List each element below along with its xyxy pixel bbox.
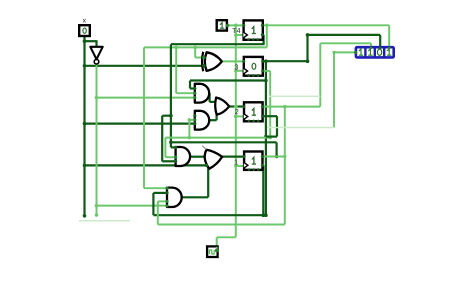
wire net AND-B output to OR3 (dark)	[191, 156, 206, 158]
T flip-flop 1	[234, 152, 262, 171]
wire net XOR output to T3 T-input (light)	[221, 60, 244, 62]
T flip-flop 2	[235, 102, 263, 122]
wire net T1.Q (light) to AND3 via bottom loop	[262, 156, 285, 158]
XOR gate U1	[205, 52, 222, 71]
wire net T3.Q-bar (light) to gates feed line y138.8	[263, 70, 271, 72]
wire net clock distribution (light)	[216, 237, 218, 251]
AND gate U7	[167, 188, 182, 207]
T flip-flop T4	[232, 20, 263, 40]
wire faint y96.3	[269, 95, 320, 97]
output display 4-bit 1101	[356, 47, 394, 57]
wire net OR1 output to T2 T-input (dark)	[229, 105, 244, 107]
svg-text:3: 3	[234, 62, 238, 71]
svg-text:2: 2	[235, 107, 239, 116]
wire net NOT output (light) x-bar	[96, 64, 98, 215]
wire net x-input (dark) from pin x	[83, 36, 85, 217]
display port dots	[354, 51, 357, 54]
OR gate U6	[205, 150, 223, 169]
svg-text:1: 1	[234, 157, 238, 166]
wire net OR3 output to T1 T-input (dark)	[222, 156, 245, 158]
input pin x	[79, 25, 90, 36]
wire net constant-1 to T4 T-input (light)	[227, 24, 244, 26]
svg-text:x: x	[83, 17, 87, 24]
svg-text:T4: T4	[232, 26, 241, 35]
AND gate U2	[195, 84, 209, 103]
T flip-flop 3	[234, 57, 262, 77]
wire net T1.Q-bar (dark)	[262, 164, 263, 166]
wire net AND2 output to OR1 (dark)	[209, 119, 217, 121]
wire net T4.Q-bar (dark) long feedback	[262, 34, 263, 36]
AND gate U5	[176, 147, 191, 166]
NOT gate inverter	[90, 47, 102, 60]
wire faint y221	[79, 220, 130, 222]
AND gate U3	[195, 111, 209, 130]
wire net T4.Q (light) to display bit0 and feedback y47.9	[262, 24, 389, 26]
wire net AND1 output to OR1 (dark)	[208, 92, 211, 94]
wire net T2.Q (light) to display bit2	[262, 106, 320, 108]
constant 1	[217, 20, 227, 30]
clock input pin	[207, 246, 218, 257]
wire faint y127.5	[267, 127, 334, 129]
wire net AND3 output (dark) riser to OR3	[182, 196, 208, 198]
display digits	[359, 49, 361, 55]
OR gate U4	[215, 98, 229, 115]
wire net T1.Q to display bit3 (light) via west side	[334, 51, 356, 53]
wire net T2.Q-bar (dark)	[262, 115, 277, 117]
wire net T3.Q (dark) to display bit1, AND1, AND3, y215 line	[263, 60, 308, 62]
